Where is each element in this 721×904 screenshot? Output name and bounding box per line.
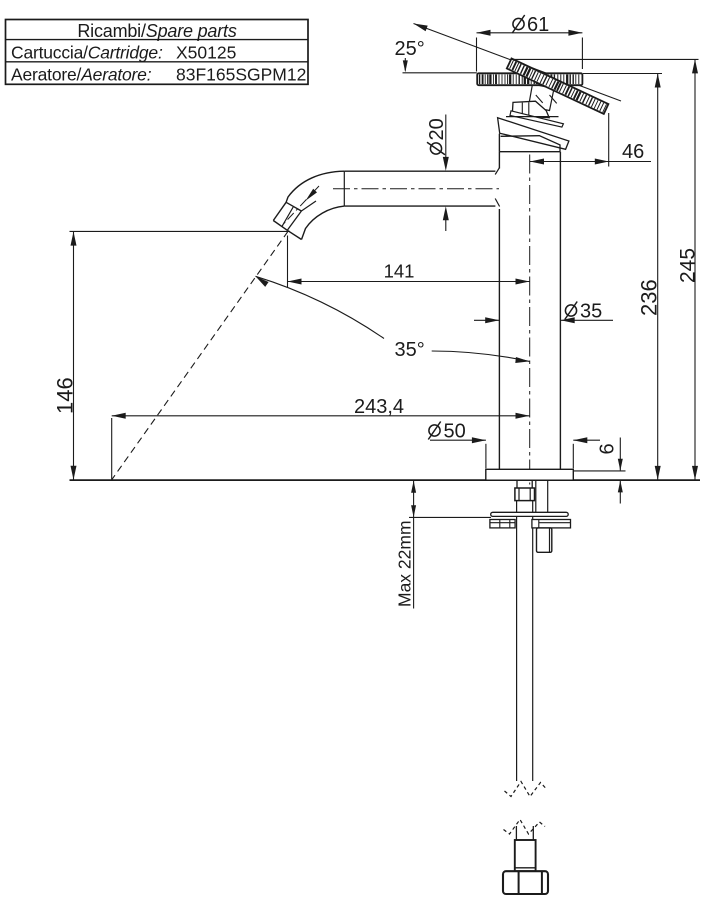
rubber washer	[491, 512, 569, 516]
extension line handle rim (236)	[583, 73, 662, 75]
svg-text:141: 141	[384, 261, 415, 282]
mounting plate left jaw	[490, 520, 515, 528]
svg-text:243,4: 243,4	[354, 396, 404, 418]
threaded shank	[517, 480, 532, 488]
svg-text:Aeratore/Aeratore:: Aeratore/Aeratore:	[11, 65, 152, 85]
svg-text:6: 6	[597, 443, 619, 454]
handle horizontal knurled arm	[477, 73, 582, 85]
svg-text:35°: 35°	[395, 339, 425, 361]
spare parts table	[6, 20, 309, 85]
handle stem	[529, 84, 557, 111]
hex nut under flange	[515, 488, 535, 501]
dimension 6	[574, 438, 626, 504]
extension line handle top (245)	[511, 58, 699, 60]
break line lower	[504, 820, 546, 835]
counter top line	[70, 479, 701, 481]
body centerline	[529, 155, 531, 485]
spout centerline	[333, 188, 499, 190]
svg-text:Ricambi/Spare parts: Ricambi/Spare parts	[77, 21, 236, 41]
svg-text:236: 236	[637, 279, 662, 316]
dimension 25 degrees	[395, 24, 622, 102]
dimension 46	[530, 113, 651, 167]
svg-text:146: 146	[53, 377, 78, 414]
dimension D50	[428, 421, 600, 469]
svg-text:20: 20	[426, 118, 448, 140]
dimension 35 degrees arc	[256, 276, 530, 363]
dimension 236	[637, 74, 662, 480]
svg-text:35: 35	[580, 301, 602, 323]
hose ferrule cylinder	[515, 840, 536, 871]
supply rod	[517, 501, 533, 781]
dimension 243,4	[112, 396, 530, 479]
bonnet collar slab	[498, 118, 569, 150]
svg-text:25°: 25°	[395, 38, 425, 60]
dimension 245	[677, 59, 700, 480]
svg-text:Max 22mm: Max 22mm	[395, 520, 415, 607]
svg-text:46: 46	[622, 141, 644, 163]
bonnet cap	[512, 101, 549, 118]
spout bend	[286, 171, 344, 239]
dimension 141	[288, 236, 530, 288]
svg-text:50: 50	[444, 421, 466, 443]
handle diagonal knurled arm	[507, 59, 609, 114]
svg-text:Cartuccia/Cartridge:: Cartuccia/Cartridge:	[11, 43, 163, 63]
hose hex nut	[503, 871, 548, 894]
dimension Max 22mm	[395, 480, 492, 608]
svg-text:61: 61	[527, 14, 549, 36]
dimension D20	[426, 115, 449, 232]
hose connection tube	[536, 480, 548, 512]
dimension D61	[477, 14, 583, 72]
body neck	[499, 134, 560, 152]
bonnet horizontal seam	[506, 116, 559, 118]
break line upper	[505, 782, 547, 797]
faucet body column	[499, 152, 560, 470]
water stream dashed line	[112, 231, 288, 480]
mounting plate right jaw	[532, 520, 571, 528]
svg-text:X50125: X50125	[176, 43, 236, 63]
svg-text:245: 245	[677, 248, 700, 283]
svg-text:83F165SGPM12: 83F165SGPM12	[176, 65, 306, 85]
dimension D35	[474, 301, 613, 324]
bonnet tilted band	[510, 111, 563, 127]
spout aerator end	[273, 201, 316, 240]
dimension 146	[53, 231, 291, 480]
base flange	[486, 469, 574, 480]
side hose block	[537, 528, 552, 552]
spout tube	[344, 167, 499, 206]
flow direction centerline	[284, 186, 319, 223]
hose stub	[516, 826, 533, 840]
